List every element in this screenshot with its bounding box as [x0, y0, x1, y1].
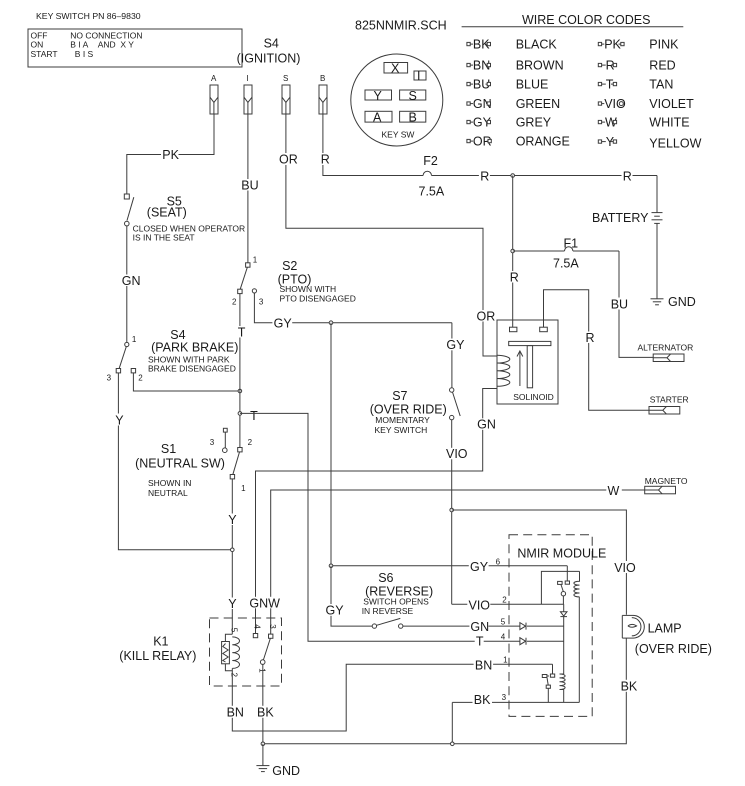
svg-text:GY: GY [446, 338, 465, 352]
label R below pin B [320, 153, 331, 167]
S5 labels [133, 195, 246, 243]
NMIR lower relay contact [542, 664, 554, 702]
wire color code PK PINK [598, 37, 679, 51]
svg-text:3: 3 [210, 438, 215, 447]
wire GN from S6 to NMIR pin 5 [403, 625, 564, 627]
svg-text:OR: OR [477, 310, 496, 324]
svg-text:MOMENTARY: MOMENTARY [375, 415, 430, 425]
node GY junction to NMIR pin 6 [329, 321, 333, 325]
label GY at NMIR pin 6 [469, 557, 501, 574]
wire color code GN GREEN [467, 97, 560, 111]
wire Y from S4 pin 3 down and right [118, 373, 232, 550]
solenoid coil [497, 355, 510, 386]
label Y above K1 [227, 597, 238, 611]
node T row junction [238, 412, 242, 416]
wire T main vertical from S2 pin2 to S1 pin2 [239, 294, 241, 448]
svg-text:B: B [320, 74, 325, 83]
svg-text:BLACK: BLACK [516, 37, 558, 51]
label PK [161, 148, 180, 162]
svg-text:BK: BK [257, 706, 274, 720]
K1 labels [119, 634, 196, 663]
ground at bottom [256, 744, 300, 778]
fuse F2 7.5A [419, 154, 445, 199]
svg-text:MAGNETO: MAGNETO [645, 476, 688, 486]
switch S6 reverse [372, 618, 403, 628]
svg-text:GREEN: GREEN [516, 97, 560, 111]
magneto connector [645, 476, 688, 494]
svg-text:F1: F1 [564, 236, 579, 250]
label GNW above K1 [248, 596, 280, 610]
svg-text:BU: BU [241, 179, 258, 193]
svg-text:6: 6 [496, 557, 501, 566]
NMIR diode D2 on pin 5 row [520, 623, 526, 630]
S7 labels [370, 389, 447, 435]
svg-text:3: 3 [259, 298, 264, 307]
svg-text:GND: GND [272, 764, 300, 778]
svg-text:R: R [510, 270, 519, 284]
wire GN from solenoid to K1 pin 4 [256, 389, 498, 634]
wire VIO lamp feed [452, 510, 627, 615]
K1 switch pin 4 [253, 624, 262, 637]
wire GY from S2 pin 3 [254, 293, 452, 323]
svg-text:VIOLET: VIOLET [649, 97, 694, 111]
svg-text:GY: GY [274, 316, 293, 330]
wire R from pin B to battery [323, 114, 657, 176]
wire color code T TAN [598, 77, 673, 91]
label OR at solenoid [476, 310, 497, 324]
svg-text:F2: F2 [423, 154, 438, 168]
key switch connection table [28, 29, 242, 67]
svg-text:BN: BN [475, 659, 492, 673]
label BU [240, 179, 259, 193]
label VIO at lamp [613, 561, 636, 575]
wire color code BN BROWN [467, 58, 564, 72]
svg-text:T: T [250, 409, 258, 423]
svg-text:KEY SWITCH: KEY SWITCH [375, 425, 428, 435]
label BU at alternator [610, 297, 631, 311]
label BN under K1 [225, 706, 245, 720]
solenoid box [497, 320, 558, 404]
svg-text:A: A [373, 111, 382, 125]
battery [592, 176, 663, 225]
svg-text:(SEAT): (SEAT) [147, 206, 187, 220]
svg-text:GN: GN [122, 274, 141, 288]
svg-text:BLUE: BLUE [516, 77, 549, 91]
node VIO junction to lamp [450, 508, 454, 512]
node Y junction [231, 548, 235, 552]
schematic name 825NNMIR.SCH [355, 19, 447, 33]
svg-text:T: T [238, 325, 246, 339]
S4 labels [148, 328, 238, 373]
wire W from K1 pin 3 to magneto [271, 490, 645, 634]
svg-text:2: 2 [502, 596, 507, 605]
wire from S4 pin 2 to T node [133, 373, 240, 391]
svg-text:5: 5 [501, 618, 506, 627]
S6 labels [362, 571, 433, 616]
svg-text:R: R [321, 153, 330, 167]
svg-text:3: 3 [268, 624, 277, 629]
S2 labels [278, 259, 356, 304]
svg-text:SOLINOID: SOLINOID [513, 392, 554, 402]
svg-text:(IGNITION): (IGNITION) [237, 52, 301, 66]
svg-text:PINK: PINK [649, 37, 679, 51]
node S4-T junction [238, 389, 242, 393]
wire Y from S1 pin 1 to K1 coil [231, 479, 233, 634]
svg-text:2: 2 [138, 373, 143, 382]
wire BN from K1 coil to NMIR pin 1 [232, 664, 552, 731]
node junction F1 tap [511, 249, 515, 253]
svg-text:SHOWN IN: SHOWN IN [148, 478, 191, 488]
key switch connector U1 (KEY SW) [351, 54, 443, 146]
alternator connector [638, 342, 694, 361]
wire color code Y YELLOW [598, 135, 701, 151]
NMIR upper relay coil [574, 571, 580, 702]
relay K1 box [210, 618, 282, 686]
label GY above S6 [324, 604, 344, 618]
starter connector [649, 395, 689, 415]
svg-text:S2: S2 [282, 259, 297, 273]
svg-text:ALTERNATOR: ALTERNATOR [638, 342, 694, 352]
switch S4 ignition header [237, 37, 301, 66]
wire PK from pin A to S5 [127, 114, 214, 194]
wire VIO to NMIR pin 2 [452, 603, 564, 605]
wire T row to NMIR pin 4 [240, 413, 564, 641]
wire BU from pin I to S2 pin 1 [247, 114, 249, 263]
svg-text:5: 5 [230, 628, 239, 633]
svg-text:R: R [586, 331, 595, 345]
svg-text:VIO: VIO [469, 598, 491, 612]
svg-text:Y: Y [228, 597, 237, 611]
wire color code W WHITE [598, 115, 689, 129]
label T at NMIR pin 4 [475, 633, 506, 649]
label T upper [237, 325, 246, 339]
label BK at lamp [619, 680, 639, 694]
K1 coil with resistor [222, 628, 240, 686]
K1 switch pin 3 and blade [258, 624, 277, 744]
node bottom rail junction at ground [261, 742, 265, 746]
svg-text:S7: S7 [392, 389, 407, 403]
wire color code VIO VIOLET [598, 97, 694, 111]
svg-text:BRAKE DISENGAGED: BRAKE DISENGAGED [148, 363, 236, 373]
svg-text:3: 3 [107, 373, 112, 382]
svg-text:1: 1 [241, 484, 246, 493]
svg-text:7.5A: 7.5A [553, 256, 579, 270]
NMIR lower relay coil [560, 674, 566, 702]
svg-text:A: A [211, 74, 217, 83]
svg-text:GNW: GNW [249, 596, 280, 610]
svg-text:GN: GN [470, 620, 489, 634]
svg-text:W: W [608, 484, 620, 498]
node junction F2 row to solenoid feed [511, 174, 515, 178]
svg-text:KEY SWITCH PN 86–9830: KEY SWITCH PN 86–9830 [36, 11, 141, 21]
svg-text:GY: GY [470, 560, 489, 574]
svg-text:7.5A: 7.5A [419, 185, 445, 199]
svg-text:(KILL RELAY): (KILL RELAY) [119, 649, 196, 663]
svg-text:START: START [31, 49, 58, 59]
svg-text:R: R [623, 170, 632, 184]
svg-text:3: 3 [502, 693, 507, 702]
svg-text:ORANGE: ORANGE [516, 134, 570, 148]
switch S7 over ride [450, 323, 461, 605]
svg-text:S: S [409, 89, 417, 103]
svg-text:Y: Y [228, 513, 237, 527]
svg-text:WIRE COLOR CODES: WIRE COLOR CODES [522, 13, 651, 27]
svg-text:OR: OR [279, 153, 298, 167]
svg-text:RED: RED [649, 58, 675, 72]
label W at magneto [606, 484, 622, 498]
wire solenoid right terminal to starter [544, 290, 650, 411]
wire BK from lamp to bottom rail [263, 638, 626, 744]
svg-text:K1: K1 [153, 634, 168, 648]
svg-text:NEUTRAL: NEUTRAL [148, 488, 188, 498]
fuse F1 7.5A [513, 236, 619, 270]
wire BU from F1 to alternator [619, 251, 653, 357]
wire color code BU BLUE [467, 77, 548, 91]
label R on solenoid feed [509, 270, 520, 284]
pin A of key switch [210, 74, 218, 114]
svg-text:4: 4 [501, 633, 506, 642]
wire color code OR ORANGE [467, 134, 570, 148]
svg-text:S1: S1 [161, 442, 176, 456]
svg-text:STARTER: STARTER [650, 395, 689, 405]
NMIR diode D3 on pin 4 row [520, 638, 526, 645]
svg-text:(OVER RIDE): (OVER RIDE) [635, 642, 712, 656]
svg-text:825NNMIR.SCH: 825NNMIR.SCH [355, 19, 447, 33]
svg-text:1: 1 [132, 335, 137, 344]
svg-text:LAMP: LAMP [648, 621, 682, 635]
svg-text:PK: PK [162, 148, 179, 162]
svg-text:2: 2 [232, 298, 237, 307]
label VIO below S7 [445, 447, 468, 461]
pin B of key switch [319, 74, 327, 114]
switch S2 PTO [232, 256, 264, 307]
label BK at NMIR pin 3 [473, 693, 507, 707]
svg-text:R: R [480, 170, 489, 184]
wire color codes header [462, 13, 684, 27]
svg-text:4: 4 [253, 624, 262, 629]
svg-text:KEY SW: KEY SW [382, 130, 415, 140]
label T at junction [250, 409, 258, 423]
svg-text:GY: GY [326, 604, 345, 618]
switch S5 seat [124, 194, 134, 226]
svg-text:1: 1 [253, 256, 258, 265]
wire GY to NMIR pin 6 [331, 323, 567, 566]
svg-text:1: 1 [258, 668, 267, 673]
svg-text:IS IN THE SEAT: IS IN THE SEAT [133, 232, 195, 242]
S1 labels [135, 442, 225, 498]
ground at battery [651, 223, 696, 308]
NMIR module box [509, 535, 606, 717]
label GY after S2 [272, 316, 292, 330]
label GN at NMIR pin 5 [469, 618, 505, 635]
svg-text:(OVER RIDE): (OVER RIDE) [370, 402, 447, 416]
switch S1 neutral [210, 428, 253, 493]
wire color code R RED [598, 58, 675, 72]
svg-text:T: T [476, 634, 484, 648]
wire GN from S5 to S4 pin 1 [126, 226, 128, 343]
wire OR from pin S to solenoid [286, 114, 497, 356]
label GY above S7 [445, 338, 465, 352]
svg-text:1: 1 [503, 656, 508, 665]
svg-text:BK: BK [621, 680, 638, 694]
wire color code GY GREY [467, 115, 552, 129]
svg-text:(PARK BRAKE): (PARK BRAKE) [151, 341, 238, 355]
svg-text:VIO: VIO [614, 561, 636, 575]
pin I of key switch [244, 74, 252, 114]
svg-text:GND: GND [668, 295, 696, 309]
label BK under K1 [256, 706, 276, 720]
svg-text:BATTERY: BATTERY [592, 211, 649, 225]
svg-text:Y: Y [374, 89, 383, 103]
label Y mid [227, 513, 238, 527]
svg-text:NMIR MODULE: NMIR MODULE [517, 547, 606, 561]
svg-text:2: 2 [248, 438, 253, 447]
svg-text:BU: BU [611, 297, 628, 311]
label GN left [121, 274, 141, 288]
svg-text:Y: Y [115, 413, 124, 427]
svg-text:IN REVERSE: IN REVERSE [362, 606, 414, 616]
lamp over ride [622, 615, 644, 638]
wire BK pin3 drop to bottom rail [451, 702, 453, 743]
label VIO at NMIR pin 2 [467, 596, 507, 613]
label R at starter drop [584, 331, 595, 345]
label R mid F2 row [479, 170, 490, 184]
pin S of key switch [282, 74, 290, 114]
label R right F2 row [622, 170, 633, 184]
svg-text:PTO DISENGAGED: PTO DISENGAGED [280, 293, 356, 303]
wire GY to S6 [331, 566, 372, 626]
svg-text:BN: BN [227, 706, 244, 720]
node bottom rail junction at BK drop [451, 742, 455, 746]
label OR top [278, 153, 299, 167]
wire color code BK BLACK [467, 37, 557, 51]
svg-text:B: B [409, 111, 417, 125]
svg-text:S: S [283, 74, 288, 83]
svg-text:S6: S6 [378, 571, 393, 585]
wire BK NMIR pin 3 row [452, 701, 579, 703]
svg-text:GN: GN [477, 418, 496, 432]
svg-text:X: X [391, 62, 400, 76]
svg-text:BROWN: BROWN [516, 58, 564, 72]
NMIR upper relay contact [541, 566, 579, 604]
wire R down to solenoid left terminal [512, 176, 514, 328]
svg-text:B I S: B I S [75, 49, 94, 59]
svg-text:BK: BK [474, 693, 491, 707]
svg-text:VIO: VIO [446, 447, 468, 461]
node GY row junction [329, 564, 333, 568]
key switch part number title [36, 11, 141, 21]
svg-text:(NEUTRAL SW): (NEUTRAL SW) [135, 456, 225, 470]
label GN below solenoid [476, 418, 496, 432]
lamp labels [635, 621, 712, 656]
svg-text:TAN: TAN [649, 77, 673, 91]
switch S4 park brake [107, 335, 144, 382]
svg-text:2: 2 [230, 673, 239, 678]
label Y left [114, 413, 125, 427]
svg-text:GREY: GREY [516, 115, 552, 129]
svg-text:S4: S4 [264, 37, 279, 51]
svg-text:I: I [247, 74, 249, 83]
label BN at NMIR pin 1 [474, 656, 509, 673]
svg-text:WHITE: WHITE [649, 115, 689, 129]
NMIR diode D1 [560, 604, 567, 674]
svg-text:YELLOW: YELLOW [649, 136, 701, 150]
svg-text:I: I [417, 69, 420, 83]
